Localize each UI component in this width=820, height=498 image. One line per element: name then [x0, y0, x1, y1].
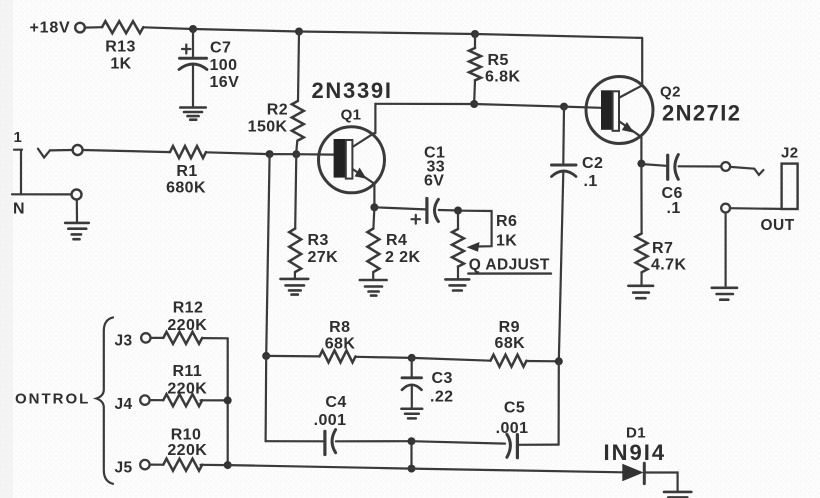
terminal +18V: [75, 23, 85, 33]
capacitor C4: [314, 394, 347, 455]
jack J1: [12, 150, 71, 195]
resistor R5: [469, 34, 520, 102]
capacitor C2: [552, 107, 604, 190]
resistor R9: [491, 319, 527, 367]
svg-text:R1: R1: [176, 163, 197, 180]
svg-text:C3: C3: [432, 370, 453, 387]
wire R8 to C3 node: [356, 357, 412, 358]
svg-text:J4: J4: [115, 396, 133, 413]
svg-text:1K: 1K: [496, 232, 517, 249]
svg-text:Q ADJUST: Q ADJUST: [469, 256, 550, 273]
wire C4 row left: [266, 440, 323, 442]
svg-text:J5: J5: [115, 459, 133, 476]
wire top rail R2 to R5 node: [299, 32, 475, 35]
wire node to Q1 base: [296, 153, 334, 156]
wire Q1 emitter to C1: [374, 207, 425, 209]
wire left vertical R8 node to C4 row: [265, 356, 268, 441]
svg-text:2N27I2: 2N27I2: [662, 100, 741, 125]
wire terminal to R13: [85, 26, 102, 29]
wire C2 bottom down to R9 node: [559, 173, 564, 362]
svg-text:.1: .1: [584, 173, 598, 190]
wire J3 to R12: [151, 337, 164, 339]
label Q ADJUST: [468, 256, 551, 273]
wire C2 node to Q2 base: [564, 107, 601, 108]
svg-text:68K: 68K: [495, 335, 526, 352]
node junction R6 top: [454, 207, 462, 215]
node junction base row / lower net tap: [266, 150, 274, 158]
svg-text:.001: .001: [496, 420, 529, 437]
capacitor C5: [496, 399, 529, 457]
ground under R4: [360, 280, 387, 296]
capacitor C1: [412, 145, 446, 224]
wire J4 to R11: [150, 399, 164, 401]
wire node to R8: [266, 355, 319, 358]
ground under J2 sleeve: [712, 288, 737, 300]
node junction R8 left: [262, 352, 270, 360]
wire R5 node to C2 node: [474, 104, 564, 107]
capacitor C6: [662, 155, 683, 217]
node junction Q1 emitter: [370, 203, 378, 211]
ground under R6: [445, 279, 469, 290]
wire center node down to bottom rail: [410, 441, 412, 468]
node junction Q2 emitter: [637, 160, 645, 168]
resistor R11: [163, 363, 207, 406]
resistor R12: [163, 299, 207, 344]
wire R10 to vertical node: [201, 464, 228, 467]
wire Q2 emitter to C6: [641, 164, 666, 166]
potentiometer R6: [452, 211, 517, 279]
svg-text:.001: .001: [314, 412, 347, 429]
svg-text:R9: R9: [499, 319, 520, 336]
wire R1 to lower-net node: [206, 152, 270, 154]
ground bottom right: [664, 492, 691, 498]
wire R11 to vertical: [201, 399, 228, 401]
resistor R4: [367, 207, 420, 278]
svg-text:220K: 220K: [167, 380, 207, 397]
svg-text:OUT: OUT: [761, 217, 795, 234]
svg-text:R12: R12: [173, 299, 204, 316]
wire Q1 collector up: [374, 104, 376, 133]
svg-text:Q2: Q2: [660, 83, 681, 100]
svg-text:6.8K: 6.8K: [485, 69, 520, 86]
brace control group: [96, 317, 113, 483]
resistor R7: [636, 164, 687, 285]
terminal output sleeve: [721, 204, 730, 213]
svg-text:IN9I4: IN9I4: [604, 440, 667, 465]
resistor R3: [289, 154, 338, 278]
diode D1 1N914: [604, 424, 667, 483]
wire R9 to right vertical node: [527, 360, 559, 362]
capacitor C3: [402, 358, 453, 408]
svg-text:R5: R5: [488, 52, 509, 69]
wire D1 to ground corner: [645, 473, 677, 492]
wire R13 to C7 node: [143, 27, 193, 29]
ground under J1: [65, 223, 89, 239]
wire right vertical R9 node to C5 row: [557, 361, 559, 444]
wire C6 to output terminal: [679, 165, 722, 167]
node junction R5/top rail: [471, 30, 479, 38]
svg-text:68K: 68K: [325, 335, 356, 352]
wire Q1 emitter down: [373, 184, 375, 208]
svg-text:.1: .1: [667, 200, 681, 217]
svg-text:C5: C5: [504, 399, 525, 416]
svg-text:6V: 6V: [424, 173, 444, 190]
wire R12 to right corner: [203, 337, 228, 339]
svg-text:680K: 680K: [166, 180, 206, 197]
wire C1 to R6 node: [439, 209, 454, 212]
node junction bottom rail center: [408, 465, 416, 473]
svg-text:N: N: [13, 201, 25, 218]
wire J5 to R10: [150, 464, 164, 466]
node junction R2/R3/base: [292, 150, 300, 158]
node junction R2/top rail: [295, 28, 303, 36]
capacitor C7: [179, 29, 239, 107]
svg-text:J2: J2: [781, 145, 799, 162]
svg-text:R7: R7: [652, 240, 673, 257]
svg-text:R3: R3: [308, 232, 329, 249]
svg-text:C4: C4: [325, 394, 346, 411]
svg-text:R4: R4: [386, 232, 407, 249]
svg-text:C2: C2: [582, 155, 603, 172]
wire C3 node to R9: [412, 358, 491, 361]
wire sleeve terminal to jack J2: [730, 207, 782, 210]
svg-text:D1: D1: [626, 424, 646, 441]
wire top rail R5 node to right corner: [475, 34, 642, 38]
svg-text:R13: R13: [105, 39, 136, 56]
terminal J3: [141, 333, 150, 342]
terminal J5: [140, 460, 149, 469]
svg-text:1: 1: [14, 129, 23, 146]
wire control vertical: [227, 338, 229, 465]
wire node to R2/R3 node: [270, 153, 297, 155]
svg-text:2 2K: 2 2K: [385, 249, 420, 266]
terminal output tip: [721, 162, 730, 171]
wire J1 tip to R1: [83, 150, 170, 152]
wire spring to tip terminal: [50, 149, 73, 152]
jack J2: [761, 145, 799, 234]
svg-text:R11: R11: [172, 363, 202, 380]
svg-text:Q1: Q1: [341, 106, 362, 123]
resistor R13: [102, 21, 143, 33]
node junction J4/vertical: [224, 396, 232, 404]
wire C4 to center node: [336, 440, 412, 442]
svg-text:J3: J3: [115, 332, 133, 349]
svg-text:ONTROL: ONTROL: [15, 390, 90, 407]
node junction R9 right: [555, 357, 563, 365]
svg-text:16V: 16V: [210, 74, 240, 91]
svg-text:.22: .22: [430, 388, 453, 405]
ground under R3: [281, 279, 309, 295]
resistor R10: [163, 427, 207, 471]
wire sleeve to ground: [76, 200, 78, 222]
resistor R2: [248, 32, 304, 153]
svg-text:220K: 220K: [167, 442, 207, 459]
node junction C4/C5 row center: [408, 437, 416, 445]
wire Q2 emitter down: [640, 137, 642, 164]
ground under C3: [401, 409, 422, 419]
terminal J1 tip: [73, 145, 83, 155]
node junction C2 top: [560, 103, 568, 111]
svg-text:+18V: +18V: [30, 19, 71, 36]
wire collector line Q1 to R5 node: [375, 103, 474, 105]
wire top rail right corner down to Q2 collector: [641, 38, 643, 86]
wire terminal to jack tip spring: [730, 167, 754, 169]
terminal J1 sleeve: [72, 190, 82, 200]
svg-text:R2: R2: [267, 102, 288, 119]
svg-text:R8: R8: [329, 319, 350, 336]
wire top rail C7 to R2 node: [193, 29, 299, 32]
jack tip spring contact: [754, 169, 763, 175]
svg-text:150K: 150K: [248, 119, 288, 136]
resistor R8: [320, 319, 356, 363]
svg-text:2N339I: 2N339I: [312, 78, 393, 103]
svg-text:100: 100: [210, 57, 238, 74]
wire bottom rail center to D1: [412, 469, 623, 473]
wire sleeve terminal down to ground: [724, 213, 726, 286]
wire left vertical to lower net: [266, 154, 269, 356]
transistor Q1 2N3391: [312, 78, 393, 193]
svg-text:C7: C7: [210, 40, 231, 57]
ground under C7: [180, 108, 205, 120]
transistor Q2 2N2712: [586, 77, 741, 144]
svg-text:R6: R6: [496, 213, 517, 230]
terminal J4: [140, 395, 149, 404]
ground under R7: [628, 286, 653, 298]
node junction C7/top rail: [189, 25, 197, 33]
svg-text:4.7K: 4.7K: [651, 256, 686, 273]
node junction C3 top: [408, 354, 416, 362]
svg-text:220K: 220K: [167, 317, 207, 334]
wire bottom rail J5 to center node: [228, 465, 412, 469]
wire center node to C5: [412, 441, 506, 443]
node junction R5 bottom: [470, 100, 478, 108]
wire C5 to right vertical: [518, 444, 559, 446]
svg-text:27K: 27K: [308, 249, 339, 266]
jack J1 tip spring: [38, 149, 50, 158]
svg-text:1K: 1K: [110, 56, 131, 73]
node junction J5/vertical: [224, 461, 232, 469]
resistor R1: [166, 146, 206, 196]
